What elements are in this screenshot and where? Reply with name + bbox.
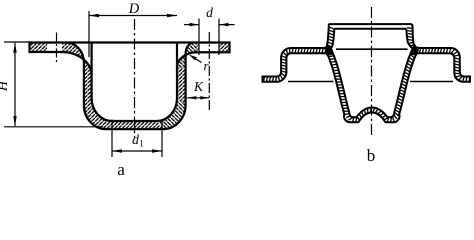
- counter-hatch patch on bottom right corner: [157, 98, 186, 129]
- left hole centerline: [56, 33, 58, 64]
- cup a outer profile: [66, 43, 194, 130]
- dimension H line with arrowheads: [14, 43, 16, 126]
- b left neck wall inner and cup left wall inner: [331, 29, 357, 118]
- cup a top rim line: [30, 41, 230, 43]
- dimension D line with arrowheads: [89, 15, 177, 17]
- dimension K double arrow: [187, 97, 209, 99]
- svg-text:H: H: [0, 80, 11, 92]
- b right neck wall outer and cup right wall outer: [385, 24, 418, 122]
- svg-text:d: d: [206, 5, 213, 20]
- b right junction fillet: [410, 46, 419, 56]
- flange right end cap: [228, 41, 230, 53]
- right hole centerline (K reference line): [208, 32, 210, 112]
- rope hatch ticks of section b: [263, 27, 470, 122]
- svg-text:1: 1: [139, 139, 144, 149]
- b flange level back edge right: [410, 81, 453, 83]
- dimension d line with outside arrows: [184, 24, 235, 26]
- b left flange outer surface and plateau top: [263, 48, 327, 77]
- section hatch of cup a body with flange holes: [30, 43, 230, 130]
- b left neck wall outer and cup left wall outer: [326, 24, 359, 122]
- svg-text:b: b: [367, 146, 376, 165]
- svg-text:K: K: [193, 79, 204, 94]
- right inner corner and right flange bottom line: [177, 52, 230, 67]
- b right flange outer surface and plateau top: [417, 48, 470, 77]
- left flange bottom line and inner corner: [30, 52, 92, 75]
- b bottom dome inner: [356, 108, 387, 118]
- b right flange inner surface and plateau bottom: [417, 53, 470, 82]
- b left flange end cap: [262, 76, 264, 83]
- svg-text:r: r: [203, 58, 209, 73]
- b rim inner edge line: [334, 28, 406, 30]
- inner wall silhouette lines and cup inner bottom: [92, 43, 177, 122]
- svg-text:D: D: [128, 1, 140, 17]
- dimension H extension lines: [4, 42, 103, 127]
- dimension d1 extension lines: [112, 120, 162, 158]
- counter-hatch patch on right inner corner: [177, 52, 197, 67]
- b right flange end cap: [469, 76, 471, 83]
- cup a center axis: [134, 19, 136, 138]
- dimension d1 line with arrowheads: [112, 150, 162, 152]
- b right neck wall inner and cup right wall inner: [387, 29, 413, 118]
- svg-text:a: a: [117, 160, 125, 179]
- b bottom dome outer: [358, 113, 385, 123]
- b rim top edge line: [329, 23, 412, 25]
- counter-hatch patch on right outer corner: [186, 43, 197, 57]
- flange left end cap: [28, 41, 30, 53]
- dimension D left extension line: [88, 11, 90, 57]
- b left junction fillet: [324, 46, 333, 56]
- svg-text:d: d: [132, 132, 139, 147]
- b left flange inner surface and plateau bottom: [263, 53, 327, 82]
- b shoulder inner edge line: [336, 48, 408, 50]
- dimension d extension lines: [199, 19, 219, 56]
- b center axis: [371, 7, 373, 137]
- b flange level back edge left: [288, 81, 334, 83]
- leader arrow for r: [193, 57, 202, 63]
